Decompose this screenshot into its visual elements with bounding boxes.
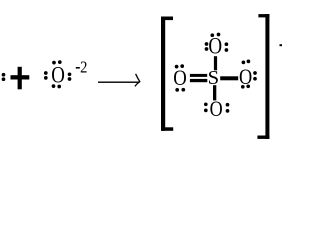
oxide bottom lone pair [52,84,61,88]
top O top lone pair [210,33,220,37]
oxide left lone pair [44,71,48,80]
left O bottom lone pair [175,88,185,92]
left bracket [161,17,173,131]
S-O right bond [220,76,238,80]
svg-text:O: O [210,97,223,121]
right O top lone pair [242,60,251,65]
S-O top bond [214,56,217,70]
oxide right lone pair [68,72,72,80]
bottom O left lone pair [204,102,208,112]
svg-text:O: O [173,66,187,90]
bracket charge superscript (cut at edge) [280,44,283,46]
plus sign [11,67,30,90]
left O top lone pair [175,64,184,68]
right bracket [257,14,269,139]
oxide top lone pair [52,60,62,64]
bottom O right lone pair [226,103,230,113]
svg-text:O: O [51,62,65,88]
svg-text:2: 2 [80,59,87,77]
S=O double bond [190,74,207,82]
svg-text:O: O [239,65,252,89]
svg-text:O: O [208,32,222,58]
top O left lone pair [205,42,209,51]
right O bottom lone pair [241,84,250,88]
reaction arrow [98,74,140,87]
oxide charge superscript -2 [76,59,88,77]
right O right lone pair [253,71,257,80]
top O right lone pair [225,42,229,52]
lone pair of cropped left reactant [2,73,6,81]
S-O bottom bond [213,85,216,100]
